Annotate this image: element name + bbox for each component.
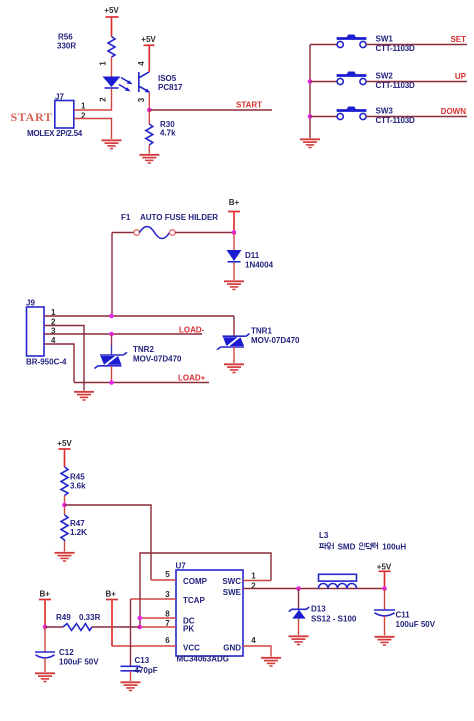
- wire C13 to ground: [130, 671, 132, 681]
- ground (J9 pin2): [74, 392, 94, 400]
- svg-text:SW3: SW3: [376, 107, 394, 116]
- resistor R49: [45, 613, 140, 630]
- wire LOAD+ row: [74, 382, 209, 384]
- junction TNR2/LOAD+: [109, 380, 114, 385]
- svg-text:CTT-1103D: CTT-1103D: [376, 81, 416, 90]
- wire R30 to ground: [148, 145, 150, 154]
- power +5V (R56 top): [104, 6, 119, 37]
- wire LED cathode to J7.1: [111, 89, 113, 111]
- ground (C12): [35, 673, 55, 681]
- junction pin1/fuse: [109, 314, 114, 319]
- svg-text:+5V: +5V: [104, 6, 119, 15]
- wire fuse column: [111, 233, 113, 317]
- svg-text:D11: D11: [245, 251, 260, 260]
- svg-text:1: 1: [99, 61, 108, 66]
- svg-text:START: START: [236, 101, 262, 110]
- pin 5 stub: [151, 570, 176, 580]
- svg-text:SET: SET: [450, 35, 466, 44]
- svg-text:J9: J9: [26, 299, 35, 308]
- svg-text:U7: U7: [176, 562, 187, 571]
- capacitor C13: [121, 656, 158, 675]
- junction SW2: [308, 79, 313, 84]
- svg-text:C11: C11: [396, 611, 411, 620]
- power +5V (output): [377, 563, 392, 589]
- svg-text:R49: R49: [56, 613, 71, 622]
- capacitor C11: [374, 589, 436, 630]
- power +5V (opto collector): [141, 35, 156, 72]
- wire D11 to ground: [233, 263, 235, 280]
- svg-text:MOLEX 2P/2.54: MOLEX 2P/2.54: [27, 129, 83, 138]
- svg-text:PC817: PC817: [158, 83, 183, 92]
- ground (R47): [55, 553, 75, 561]
- svg-text:DOWN: DOWN: [441, 107, 467, 116]
- switch SW3: [310, 107, 415, 126]
- svg-text:+5V: +5V: [141, 35, 156, 44]
- svg-text:1: 1: [81, 102, 86, 111]
- svg-text:F1: F1: [121, 213, 131, 222]
- svg-text:COMP: COMP: [183, 577, 208, 586]
- fuse F1: [121, 213, 218, 239]
- diode D11: [227, 250, 274, 270]
- svg-text:L3: L3: [319, 531, 329, 540]
- switch SW2: [310, 72, 415, 91]
- diode D13 schottky: [289, 605, 357, 624]
- wire junction to R30: [148, 110, 150, 124]
- svg-text:100uH: 100uH: [382, 542, 406, 551]
- wire SW1 to SET: [366, 44, 467, 46]
- pin 1 stub: [243, 572, 271, 581]
- svg-text:START: START: [11, 110, 53, 124]
- op-amp label ISO5 PC817: [158, 74, 183, 92]
- ground (R30): [139, 155, 159, 163]
- wire TCAP to C13: [130, 599, 132, 666]
- wire START net: [149, 109, 272, 111]
- junction L3/C11: [382, 586, 387, 591]
- resistor R45: [61, 467, 86, 496]
- wire TNR1 to ground: [233, 347, 235, 363]
- svg-text:SWE: SWE: [223, 588, 242, 597]
- connector J9: [26, 299, 67, 367]
- svg-text:R45: R45: [70, 473, 85, 482]
- junction fuse/B+/D11: [232, 230, 237, 235]
- svg-text:CTT-1103D: CTT-1103D: [376, 116, 416, 125]
- connector J7: [55, 93, 86, 129]
- ground (U7 GND): [261, 658, 281, 666]
- svg-text:C13: C13: [135, 656, 150, 665]
- svg-text:1.2K: 1.2K: [70, 528, 87, 537]
- junction SW3: [308, 114, 313, 119]
- wire C12 to ground: [44, 658, 46, 672]
- svg-text:B+: B+: [229, 198, 240, 207]
- resistor R30: [146, 120, 176, 145]
- wire J9 pin1 row: [44, 315, 234, 317]
- varistor TNR1: [217, 327, 300, 350]
- svg-text:1: 1: [251, 572, 256, 581]
- power B+ (VCC): [106, 590, 119, 647]
- wire SW2 to UP: [366, 81, 467, 83]
- svg-text:3: 3: [137, 97, 146, 102]
- varistor TNR2: [95, 345, 183, 369]
- junction (opto emitter / R30): [147, 108, 152, 113]
- LED of opto ISO5: [103, 77, 121, 89]
- op-amp U7 MC34063ADG box: [176, 562, 244, 664]
- wire C11 to ground: [384, 616, 386, 636]
- wire B+ to D11: [233, 233, 235, 251]
- svg-text:AUTO FUSE HILDER: AUTO FUSE HILDER: [140, 213, 218, 222]
- svg-text:6: 6: [165, 636, 170, 645]
- wire SWC loop: [140, 553, 271, 627]
- wire fuse row right: [175, 232, 234, 234]
- pin 8 stub: [140, 610, 176, 619]
- resistor R56: [57, 33, 115, 58]
- svg-text:100uF 50V: 100uF 50V: [396, 620, 436, 629]
- svg-text:VCC: VCC: [183, 644, 200, 653]
- svg-text:MOV-07D470: MOV-07D470: [133, 355, 182, 364]
- svg-text:0.33R: 0.33R: [79, 613, 101, 622]
- svg-text:PK: PK: [183, 625, 194, 634]
- svg-text:B+: B+: [40, 590, 51, 599]
- wire J7 pin1: [74, 109, 112, 111]
- power +5V (R45): [57, 439, 72, 467]
- pin 2 stub: [243, 582, 385, 591]
- svg-text:R47: R47: [70, 519, 85, 528]
- svg-text:+5V: +5V: [57, 439, 72, 448]
- wire J7 pin2: [74, 119, 112, 140]
- wire R45 to R47: [64, 496, 66, 516]
- wire D13 to ground: [298, 619, 300, 635]
- svg-text:SS12 - S100: SS12 - S100: [311, 615, 357, 624]
- svg-text:470pF: 470pF: [135, 666, 158, 675]
- switch SW1: [310, 35, 415, 54]
- wire J9 pin3 LOAD- row: [44, 333, 202, 335]
- svg-text:4: 4: [251, 636, 256, 645]
- svg-text:100uF 50V: 100uF 50V: [59, 658, 99, 667]
- wire J9 pin4 down: [44, 344, 74, 383]
- svg-text:LOAD+: LOAD+: [178, 374, 206, 383]
- wire D13 top: [298, 589, 300, 609]
- junction B+/R49/C12: [43, 625, 48, 630]
- svg-text:MC34063ADG: MC34063ADG: [177, 655, 229, 664]
- svg-text:3: 3: [165, 590, 170, 599]
- pin 7 stub: [140, 619, 176, 628]
- svg-text:TNR2: TNR2: [133, 345, 154, 354]
- pin 6 stub: [112, 636, 176, 646]
- wire feedback to COMP: [65, 505, 152, 580]
- svg-text:SMD: SMD: [338, 542, 356, 551]
- ground (D11): [224, 281, 244, 289]
- power B+ (fuse): [228, 198, 240, 233]
- svg-text:SWC: SWC: [222, 577, 241, 586]
- svg-text:8: 8: [165, 610, 170, 619]
- wire fuse row left: [112, 232, 134, 234]
- svg-text:D13: D13: [311, 605, 326, 614]
- wire emitter down: [148, 93, 150, 111]
- junction SWE/D13: [296, 586, 301, 591]
- svg-text:ISO5: ISO5: [158, 74, 177, 83]
- wire SW3 to DOWN: [366, 116, 467, 118]
- svg-text:4: 4: [137, 61, 146, 66]
- svg-text:SW2: SW2: [376, 72, 394, 81]
- svg-text:CTT-1103D: CTT-1103D: [376, 44, 416, 53]
- inductor L3: [319, 531, 357, 589]
- svg-text:TNR1: TNR1: [251, 327, 272, 336]
- svg-text:5: 5: [165, 570, 170, 579]
- svg-text:4.7k: 4.7k: [160, 129, 176, 138]
- svg-text:TCAP: TCAP: [183, 596, 205, 605]
- wire R56 to LED: [111, 57, 113, 77]
- label L3 korean: SMD inductor 100uH: [319, 542, 378, 551]
- svg-text:GND: GND: [223, 644, 241, 653]
- junction R45/R47: [62, 503, 67, 508]
- svg-text:MOV-07D470: MOV-07D470: [251, 336, 300, 345]
- ground (C11): [375, 637, 395, 645]
- wire switch bus: [309, 45, 311, 139]
- svg-text:330R: 330R: [57, 42, 76, 51]
- svg-text:SW1: SW1: [376, 35, 394, 44]
- wire J9 pin2 to ground: [44, 326, 84, 391]
- ground (switch bus): [300, 139, 320, 147]
- junction DC: [138, 616, 143, 621]
- phototransistor of ISO5: [139, 72, 150, 93]
- resistor R47: [61, 515, 87, 541]
- junction pin3/TNR2: [109, 332, 114, 337]
- power B+ (R49): [39, 590, 51, 628]
- svg-text:2: 2: [99, 97, 108, 102]
- svg-text:+5V: +5V: [377, 563, 392, 572]
- svg-text:R56: R56: [58, 33, 73, 42]
- svg-text:UP: UP: [455, 72, 467, 81]
- svg-text:C12: C12: [59, 648, 74, 657]
- svg-text:BR-950C-4: BR-950C-4: [26, 358, 67, 367]
- ground (TNR1): [224, 364, 244, 372]
- svg-text:B+: B+: [106, 590, 117, 599]
- ground (J7): [102, 140, 122, 148]
- wire TNR2 top: [111, 334, 113, 346]
- wire TNR2 bottom: [111, 366, 113, 383]
- svg-text:LOAD-: LOAD-: [179, 326, 205, 335]
- capacitor C12: [35, 627, 99, 667]
- wire TNR1 top: [233, 316, 235, 336]
- ground (D13): [289, 636, 309, 644]
- svg-text:1N4004: 1N4004: [245, 261, 274, 270]
- light arrows: [119, 78, 133, 92]
- wire R47 to ground: [64, 541, 66, 552]
- ground (C13): [121, 682, 141, 690]
- svg-text:3.6k: 3.6k: [70, 482, 86, 491]
- junction PK: [138, 625, 143, 630]
- pin 3 stub: [131, 590, 177, 599]
- pin 4 stub: [243, 636, 271, 657]
